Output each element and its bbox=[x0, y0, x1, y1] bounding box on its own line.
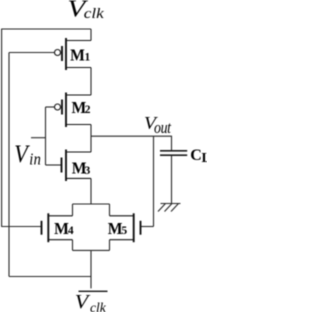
wire: left rail from Vclk to M4 gate bbox=[1, 29, 3, 227]
svg-text:V: V bbox=[14, 141, 30, 169]
wire: M1 drain to M2 source bbox=[90, 68, 92, 96]
label Vclk-bar bottom bbox=[75, 290, 92, 312]
transistor M3 (NMOS) bbox=[62, 150, 92, 182]
wire: Vout horizontal bbox=[91, 135, 172, 137]
wire: M5 gate wire bbox=[141, 226, 154, 228]
transistor M2 (PMOS) bbox=[55, 93, 92, 128]
transistor M5 (NMOS, mirrored) bbox=[110, 213, 141, 242]
svg-text:3: 3 bbox=[85, 165, 91, 177]
label Vout bbox=[144, 114, 159, 134]
wire: M3 gate wire bbox=[46, 164, 62, 166]
svg-text:4: 4 bbox=[68, 225, 74, 237]
wire: M4/M5 bottom node to Vclk-bar bbox=[90, 250, 92, 276]
wire: M2 gate wire bbox=[46, 106, 55, 108]
wire: M4/M5 common top line bbox=[73, 204, 110, 216]
wire: Vclk top rail bbox=[1, 28, 91, 30]
label Vclk-bar bottom overline bbox=[79, 290, 108, 292]
label M2 bbox=[72, 97, 87, 117]
wire: Vin stub bbox=[31, 137, 46, 139]
wire: Vout feedback drop to M5 gate bbox=[153, 136, 155, 226]
transistor M1 (PMOS) bbox=[55, 38, 92, 70]
svg-text:M: M bbox=[108, 218, 123, 238]
svg-text:2: 2 bbox=[85, 104, 91, 116]
wire: M3 bottom to M4/M5 top node bbox=[90, 178, 92, 204]
wire: rail2 (Vclk-bar) vertical bbox=[8, 53, 10, 277]
svg-text:out: out bbox=[154, 119, 172, 137]
wire: M2 drain to M3 top through Vout node bbox=[90, 125, 92, 153]
wire: capacitor branch upper bbox=[171, 136, 173, 150]
svg-text:L: L bbox=[202, 151, 208, 166]
capacitor CL plates bbox=[160, 151, 187, 155]
svg-text:clk: clk bbox=[84, 6, 105, 22]
wire: M4/M5 common bottom line bbox=[73, 240, 110, 251]
svg-text:C: C bbox=[190, 147, 202, 164]
wire: column Vclk to M1 top bbox=[90, 29, 92, 41]
svg-text:in: in bbox=[29, 151, 41, 169]
svg-text:5: 5 bbox=[121, 225, 127, 237]
label M1 bbox=[70, 45, 85, 65]
wire: M4 gate wire bbox=[1, 226, 41, 228]
label Vclk top bbox=[67, 0, 88, 22]
label M3 bbox=[72, 158, 87, 178]
transistor M4 (NMOS) bbox=[42, 213, 73, 242]
wire: Vclk-bar terminal stub bbox=[90, 277, 92, 289]
svg-text:M: M bbox=[70, 45, 85, 65]
svg-text:M: M bbox=[54, 218, 69, 238]
svg-text:clk: clk bbox=[90, 300, 107, 312]
svg-text:1: 1 bbox=[85, 52, 91, 64]
wire: M1 gate to rail2 bbox=[9, 52, 54, 54]
label M4 bbox=[54, 218, 69, 238]
label Vin bbox=[14, 141, 30, 169]
wire: M2/M3 gate join vertical bbox=[45, 107, 47, 165]
wire: bottom Vclk-bar horizontal bbox=[9, 276, 91, 278]
svg-text:V: V bbox=[75, 290, 92, 312]
label M5 bbox=[108, 218, 123, 238]
ground symbol bbox=[158, 204, 181, 212]
wire: capacitor branch lower bbox=[171, 156, 173, 204]
